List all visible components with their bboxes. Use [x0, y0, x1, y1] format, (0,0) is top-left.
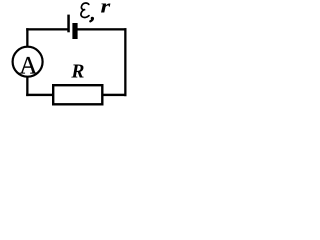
- wire bottom-right segment: [102, 94, 127, 96]
- wire top-left segment: [26, 28, 68, 30]
- wire right segment: [124, 28, 126, 96]
- wire bottom-left segment: [26, 94, 54, 96]
- label comma: [90, 18, 93, 21]
- battery cell long plate (positive): [67, 15, 70, 33]
- svg-text:A: A: [19, 53, 37, 80]
- label EMF script E: [81, 3, 89, 18]
- wire left lower segment: [26, 76, 28, 96]
- ammeter U1 circle: [13, 47, 43, 77]
- svg-text:R: R: [70, 62, 84, 83]
- battery cell short thick plate (negative): [72, 23, 77, 39]
- wire top-right segment: [77, 28, 127, 30]
- wire left upper segment: [26, 28, 28, 47]
- svg-text:r: r: [101, 0, 111, 17]
- resistor R box: [53, 85, 102, 104]
